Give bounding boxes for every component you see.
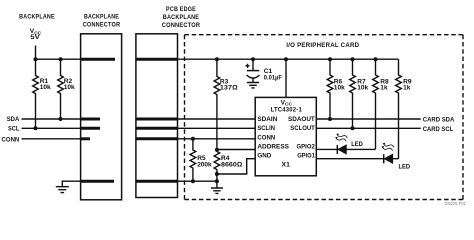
node junction ADDRESS-R4 bbox=[215, 148, 219, 152]
svg-text:10k: 10k bbox=[334, 84, 345, 91]
node VCC 5V label bbox=[30, 28, 42, 41]
node junction rail-R3 bbox=[215, 57, 219, 61]
pin GND bar J1 bbox=[81, 180, 114, 183]
svg-text:CONNECTOR: CONNECTOR bbox=[162, 22, 201, 29]
svg-text:SCLOUT: SCLOUT bbox=[290, 125, 315, 132]
node junction VCC-R2 bbox=[59, 57, 63, 61]
svg-text:X1: X1 bbox=[282, 162, 291, 169]
label BACKPLANE CONNECTOR bbox=[83, 13, 121, 28]
label I/O PERIPHERAL CARD bbox=[286, 42, 359, 49]
node junction R1-SCL bbox=[34, 126, 38, 130]
pin SCL bar J1 bbox=[81, 127, 100, 130]
LED D2 light arrows bbox=[382, 143, 394, 151]
node junction GND wire-R4 bbox=[215, 172, 219, 176]
label R2 10k bbox=[64, 78, 75, 91]
label R4 8660ohm bbox=[221, 155, 242, 169]
svg-text:SDA: SDA bbox=[7, 116, 20, 123]
pin SCLIN bbox=[257, 125, 275, 132]
node junction rail-R7 bbox=[351, 57, 355, 61]
label R9 1k bbox=[403, 78, 412, 91]
node junction R5-gnd rail bbox=[191, 179, 195, 183]
pin SDAOUT bbox=[288, 116, 315, 123]
resistor R8 bbox=[373, 59, 379, 149]
pin CONN bar J2 bbox=[136, 137, 177, 140]
op-amp U1 LTC4302-1 box bbox=[255, 97, 316, 175]
wire ADDRESS bbox=[217, 149, 255, 151]
LED D1 bbox=[337, 145, 346, 154]
node junction rail-VCC pin bbox=[284, 57, 288, 61]
wire SCL mid bbox=[178, 127, 256, 129]
svg-text:SDAOUT: SDAOUT bbox=[288, 116, 315, 123]
pin CONN bbox=[257, 134, 275, 141]
wire SDA mid bbox=[178, 118, 256, 120]
svg-text:BACKPLANE: BACKPLANE bbox=[163, 14, 200, 21]
node junction VCC-R1 bbox=[34, 57, 38, 61]
pin SCL bar J2 bbox=[136, 127, 177, 130]
label CARD SDA bbox=[423, 117, 455, 124]
svg-text:10k: 10k bbox=[40, 84, 51, 91]
resistor R2 bbox=[58, 59, 64, 119]
svg-text:ADDRESS: ADDRESS bbox=[257, 144, 289, 151]
wire GPIO2 bbox=[316, 148, 375, 150]
svg-text:GND: GND bbox=[257, 153, 271, 160]
svg-text:BACKPLANE: BACKPLANE bbox=[19, 14, 55, 21]
svg-text:CONN: CONN bbox=[257, 134, 275, 141]
label R7 10k bbox=[357, 78, 368, 91]
LED D2 bbox=[384, 154, 393, 163]
label + polarity C1 bbox=[245, 64, 249, 68]
label VCC pin bbox=[281, 99, 293, 107]
svg-text:1k: 1k bbox=[380, 84, 388, 91]
svg-text:LTC4302-1: LTC4302-1 bbox=[271, 106, 302, 113]
resistor R9 bbox=[396, 59, 402, 159]
svg-text:0.01µF: 0.01µF bbox=[264, 74, 282, 81]
label PCB EDGE BACKPLANE CONNECTOR bbox=[162, 6, 201, 29]
LED D1 light arrows bbox=[335, 134, 347, 142]
ground R4 bbox=[211, 188, 223, 193]
svg-text:10k: 10k bbox=[64, 84, 75, 91]
svg-text:5V: 5V bbox=[30, 34, 40, 41]
pin SDAIN bbox=[257, 116, 277, 123]
label LTC4302-1 bbox=[271, 106, 302, 113]
svg-text:1k: 1k bbox=[403, 84, 411, 91]
svg-text:CARD SCL: CARD SCL bbox=[423, 126, 453, 133]
node junction CONN-R5 bbox=[191, 137, 195, 141]
svg-text:8660Ω: 8660Ω bbox=[221, 162, 242, 169]
pin GND bbox=[257, 153, 271, 160]
pin GPIO2 bbox=[297, 144, 316, 151]
node junction rail-R6 bbox=[328, 57, 332, 61]
pin VCC bar J1 bbox=[81, 58, 115, 61]
label SCL bbox=[8, 126, 19, 133]
wire CONN mid bbox=[178, 138, 256, 140]
resistor R6 bbox=[327, 59, 333, 119]
svg-text:CONNECTOR: CONNECTOR bbox=[83, 21, 121, 28]
ground backplane bbox=[56, 187, 69, 193]
svg-text:GPIO1: GPIO1 bbox=[297, 153, 315, 160]
pin CONN bar J1 bbox=[81, 137, 90, 140]
label SDA bbox=[7, 116, 20, 123]
wire VCC drop bbox=[35, 46, 37, 60]
resistor R1 bbox=[33, 59, 39, 128]
wire SDAOUT to card bbox=[316, 118, 421, 120]
label R6 10k bbox=[334, 78, 345, 91]
wire SDA left bbox=[22, 118, 81, 120]
resistor R3 bbox=[214, 59, 220, 149]
wire GPIO1 bbox=[316, 158, 398, 160]
svg-text:BACKPLANE: BACKPLANE bbox=[84, 13, 119, 20]
svg-text:LED: LED bbox=[399, 163, 411, 170]
svg-text:CARD SDA: CARD SDA bbox=[423, 117, 455, 124]
label C1 0.01uF bbox=[264, 68, 282, 82]
label R1 10k bbox=[40, 78, 51, 91]
node junction gnd rail-R4 bbox=[215, 179, 219, 183]
label DN225 F01 bbox=[445, 201, 467, 206]
node junction R2-SDA bbox=[59, 117, 63, 121]
svg-text:CONN: CONN bbox=[2, 136, 20, 143]
wire VCC pin drop bbox=[285, 59, 287, 97]
resistor R4 bbox=[214, 150, 220, 189]
label R8 1k bbox=[380, 78, 389, 91]
pin VCC bar J2 bbox=[136, 58, 177, 61]
wire GND pin bbox=[217, 159, 255, 174]
wire ground left bbox=[62, 181, 80, 187]
label BACKPLANE bbox=[19, 14, 55, 21]
wire SCLOUT to card bbox=[316, 127, 421, 129]
pin ADDRESS bbox=[257, 144, 289, 151]
pin SDA bar J2 bbox=[136, 118, 177, 121]
capacitor C1 bbox=[247, 59, 260, 82]
ground C1 bbox=[247, 83, 259, 88]
svg-text:SCLIN: SCLIN bbox=[257, 125, 275, 132]
pin SDA bar J1 bbox=[81, 118, 100, 121]
svg-text:137Ω: 137Ω bbox=[220, 84, 238, 91]
label LED D1 bbox=[351, 141, 363, 148]
svg-text:I/O PERIPHERAL CARD: I/O PERIPHERAL CARD bbox=[286, 42, 359, 49]
connector J2 PCB edge connector box bbox=[136, 34, 178, 198]
label X1 bbox=[282, 162, 291, 169]
node junction R6-SDAOUT bbox=[328, 117, 332, 121]
wire VCC rail right bbox=[178, 58, 399, 60]
label R3 137ohm bbox=[220, 78, 238, 91]
label R5 200k bbox=[197, 155, 212, 169]
resistor R7 bbox=[350, 59, 356, 128]
node junction R7-SCLOUT bbox=[351, 126, 355, 130]
I/O peripheral card dashed boundary bbox=[185, 35, 464, 200]
pin GND bar J2 bbox=[136, 180, 177, 183]
label LED D2 bbox=[399, 163, 411, 170]
resistor R5 bbox=[190, 139, 196, 181]
svg-text:PCB EDGE: PCB EDGE bbox=[166, 6, 196, 13]
wire SCL left bbox=[22, 127, 81, 129]
svg-text:200k: 200k bbox=[197, 162, 212, 169]
node junction rail-R8 bbox=[374, 57, 378, 61]
connector J1 backplane connector box bbox=[81, 34, 122, 200]
svg-text:DN225 F01: DN225 F01 bbox=[445, 201, 467, 206]
svg-text:10k: 10k bbox=[357, 84, 368, 91]
wire VCC rail left bbox=[36, 58, 81, 60]
label CONN bbox=[2, 136, 20, 143]
label CARD SCL bbox=[423, 126, 453, 133]
node junction rail-C1 bbox=[251, 57, 255, 61]
svg-text:LED: LED bbox=[351, 141, 363, 148]
svg-text:SCL: SCL bbox=[8, 126, 19, 133]
wire CONN left bbox=[22, 138, 81, 140]
wire ground rail mid bbox=[178, 180, 217, 182]
svg-text:GPIO2: GPIO2 bbox=[297, 144, 316, 151]
pin GPIO1 bbox=[297, 153, 315, 160]
svg-text:SDAIN: SDAIN bbox=[257, 116, 277, 123]
pin SCLOUT bbox=[290, 125, 315, 132]
